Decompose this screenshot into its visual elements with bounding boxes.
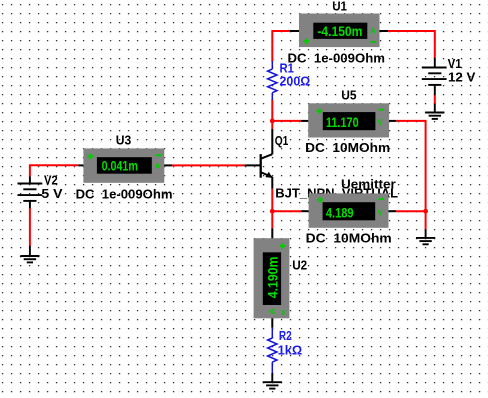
wire node A to U5 left bbox=[272, 120, 301, 122]
svg-text:Q1: Q1 bbox=[275, 133, 289, 148]
svg-text:V: V bbox=[377, 118, 383, 127]
wire U3 right to Q1 base bbox=[172, 164, 245, 166]
resistor R1 bbox=[268, 61, 277, 100]
svg-text:V: V bbox=[377, 209, 383, 218]
battery V1 bbox=[422, 58, 447, 95]
svg-text:U2: U2 bbox=[292, 258, 307, 273]
svg-text:U3: U3 bbox=[116, 132, 132, 147]
svg-text:U1: U1 bbox=[332, 0, 347, 13]
transistor Q1 bbox=[245, 129, 273, 189]
multimeter U1 bbox=[290, 14, 388, 48]
svg-text:A: A bbox=[370, 27, 376, 36]
ground under V1 bbox=[425, 104, 444, 119]
svg-text:DC 1e-009Ohm: DC 1e-009Ohm bbox=[288, 50, 386, 65]
svg-text:-4.150m: -4.150m bbox=[317, 24, 362, 39]
wire node B to ground bbox=[425, 211, 427, 229]
multimeter U5 bbox=[301, 103, 397, 137]
svg-text:A: A bbox=[155, 162, 161, 171]
wire node A to Q1 collector bbox=[271, 121, 273, 129]
wire U1 left to R1 top bbox=[272, 31, 290, 62]
multimeter U3 bbox=[78, 148, 172, 182]
svg-text:Uemitter: Uemitter bbox=[341, 177, 396, 192]
ground under V2 bbox=[20, 246, 39, 263]
svg-text:1kΩ: 1kΩ bbox=[278, 343, 303, 358]
svg-text:DC 10MOhm: DC 10MOhm bbox=[305, 140, 390, 155]
svg-text:4.190m: 4.190m bbox=[265, 257, 280, 299]
wire node C to Uemitter left bbox=[272, 210, 301, 212]
svg-text:5 V: 5 V bbox=[41, 186, 62, 201]
wire V1 bottom to ground bbox=[434, 95, 436, 104]
wire R1 bottom to node A bbox=[271, 99, 273, 121]
svg-text:0.041m: 0.041m bbox=[102, 159, 138, 174]
svg-text:11.170: 11.170 bbox=[326, 115, 359, 130]
wire U5 right to node B bbox=[396, 121, 425, 211]
battery V2 bbox=[18, 176, 43, 208]
svg-text:R2: R2 bbox=[279, 328, 292, 343]
svg-text:12 V: 12 V bbox=[448, 70, 476, 85]
multimeter Uemitter bbox=[301, 193, 396, 227]
ground under node B bbox=[416, 229, 435, 244]
wire Uemitter right to node B bbox=[396, 210, 426, 212]
svg-text:DC 10MOhm: DC 10MOhm bbox=[306, 230, 392, 245]
svg-text:200Ω: 200Ω bbox=[280, 73, 311, 88]
wire V2 bottom to ground bbox=[29, 208, 31, 246]
svg-text:A: A bbox=[268, 308, 277, 314]
wire U1 right to V1 top bbox=[388, 31, 435, 58]
wire Q1 emitter to U2 top bbox=[271, 189, 273, 229]
wire V2 top to U3 left bbox=[30, 165, 79, 176]
svg-text:4.189: 4.189 bbox=[326, 206, 354, 221]
svg-text:DC 1e-009Ohm: DC 1e-009Ohm bbox=[76, 186, 173, 201]
node C junction bbox=[270, 209, 275, 214]
multimeter U2 bbox=[254, 228, 290, 327]
node A junction bbox=[270, 119, 275, 124]
svg-text:U5: U5 bbox=[341, 87, 356, 102]
resistor R2 bbox=[268, 328, 277, 374]
ground under R2 bbox=[263, 373, 282, 389]
node B junction bbox=[423, 209, 428, 214]
